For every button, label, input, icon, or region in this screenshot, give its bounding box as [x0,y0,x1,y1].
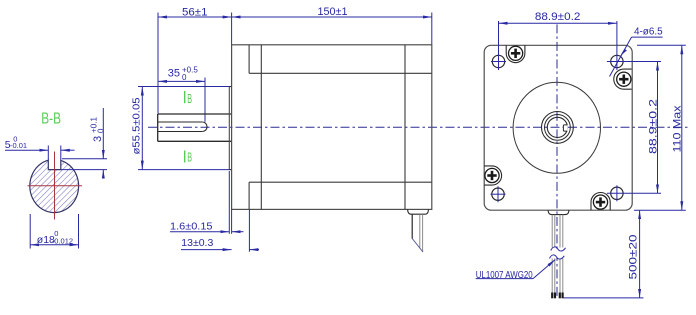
dimension 1.6±0.15 (pilot boss height) [170,171,244,234]
svg-text:3: 3 [92,136,104,142]
svg-text:500±20: 500±20 [628,235,640,280]
section label B-B [41,111,61,128]
svg-text:4-ø6.5: 4-ø6.5 [634,27,663,38]
mounting hole top-left [491,21,506,70]
main horizontal centerline [148,126,690,128]
dimension 150±1 [232,6,432,45]
screw boss left [484,166,501,185]
front pilot boss (side) [229,87,231,170]
wire break symbol [550,247,566,259]
front flange square [484,45,632,210]
screw top (phillips) [508,46,522,60]
dimension ø18 0/-0.012 [30,214,78,249]
wire grommet (front) [548,210,569,214]
svg-text:ø55.5±0.05: ø55.5±0.05 [132,97,143,154]
dimension 500±20 (wire length) [564,210,644,298]
wire grommet (side) [408,209,429,214]
wire break gap mask [548,249,567,258]
screw left (phillips) [485,168,499,182]
dimension 13±0.3 (front end cap) [181,209,259,251]
svg-text:88.9±0.2: 88.9±0.2 [648,99,660,154]
label 4-ø6.5 with leader [610,27,664,77]
mounting hole bottom-right [607,185,661,201]
motor shaft (side) [158,114,232,141]
svg-text:+0.1: +0.1 [90,116,99,133]
dimension 56±1 [158,6,232,113]
svg-text:B: B [187,91,192,106]
dimension 35 0/+0.5 (keyway length) [158,66,205,122]
lead wires (front) [552,215,563,293]
screw right (phillips) [617,72,631,86]
lead wires (side) [412,214,423,252]
mounting hole top-right [607,21,661,70]
shaft boss circles (front) [542,112,574,144]
red centerline cross of section [28,152,83,220]
dimension 88.9±0.2 vertical [648,62,660,194]
screw boss right [614,69,632,89]
svg-text:110 Max: 110 Max [672,105,684,153]
dimension ø55.5±0.05 [132,87,231,170]
section cut mark B bottom [185,150,192,165]
pilot circle ø55.5 (front) [513,82,600,173]
svg-text:0: 0 [182,73,187,82]
body lamination lines (side) [249,45,432,210]
screw boss top [506,45,525,62]
dimension 110 Max [634,45,686,210]
shaft section outline with keyway notch, hatched [30,160,79,212]
label UL1007 AWG20 with leader [476,260,556,282]
section cut mark B top [185,91,192,106]
svg-text:88.9±0.2: 88.9±0.2 [535,11,581,23]
vertical centerline of front view [556,24,558,298]
svg-text:150±1: 150±1 [318,6,348,18]
shaft keyway notch (front) [563,125,567,131]
wire stripped ends [552,293,562,299]
motor body outline (side) [232,45,432,210]
screw bottom (phillips) [593,195,607,209]
svg-text:35: 35 [168,67,180,79]
mounting hole bottom-left [491,186,506,202]
svg-text:1.6±0.15: 1.6±0.15 [170,221,213,232]
dimension 5 0/-0.01 (keyway width) [5,135,75,161]
shaft keyway (side) [158,122,207,132]
svg-text:0: 0 [54,229,58,238]
screw boss bottom [591,193,610,211]
dimension 3 0/+0.1 (keyway depth) [61,108,107,178]
svg-text:UL1007 AWG20: UL1007 AWG20 [476,270,533,281]
svg-text:0: 0 [13,135,17,144]
svg-text:13±0.3: 13±0.3 [181,238,213,249]
svg-text:B-B: B-B [41,111,61,128]
svg-text:B: B [187,150,192,165]
dimension 88.9±0.2 horizontal [499,11,617,23]
